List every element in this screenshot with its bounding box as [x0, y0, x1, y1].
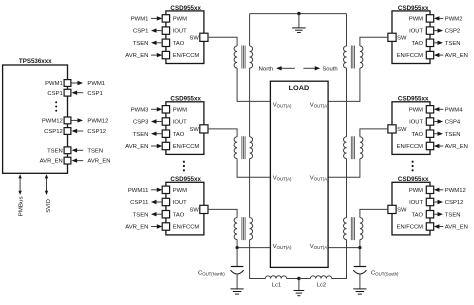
pin SW of south CSD row3 [388, 205, 407, 213]
svg-text:PWM: PWM [409, 107, 423, 113]
svg-text:CSP12: CSP12 [445, 200, 464, 206]
coupled inductor T5 south (secondary winding) [344, 137, 347, 159]
svg-text:EN/FCCM: EN/FCCM [173, 144, 200, 150]
svg-text:North: North [259, 67, 274, 73]
ground of COUT(North) [231, 288, 244, 290]
power stage U4 CSD955xx (north phase 11) [166, 177, 204, 235]
pin PWM12 of U1 [42, 117, 109, 125]
svg-text:AVR_EN: AVR_EN [445, 144, 468, 150]
svg-text:PWM: PWM [173, 107, 187, 113]
power stage U5 CSD955xx (south phase 2) [392, 6, 430, 64]
pin EN/FCCM of north CSD row2 [125, 142, 199, 150]
coupled inductor T6 south (secondary winding) [344, 218, 347, 240]
capacitor COUT(South) [353, 248, 399, 289]
junction north output node [236, 246, 239, 249]
coupled inductor T4 south (primary winding) [360, 46, 363, 68]
pin IOUT of south CSD row1 [409, 27, 460, 35]
wire T5 primary to LOAD right pin [328, 159, 360, 178]
coupled inductor T5 south (primary winding) [360, 137, 363, 159]
svg-text:CSP1: CSP1 [47, 91, 62, 97]
svg-text:IOUT: IOUT [409, 120, 423, 126]
svg-text:COUT(North): COUT(North) [198, 270, 225, 276]
junction on top rail [297, 12, 300, 15]
wire T4 primary to LOAD right pin [328, 68, 360, 101]
coupled inductor T1 north (secondary winding) [250, 46, 253, 68]
svg-text:PWM1: PWM1 [87, 81, 105, 87]
wire north secondary rail top (to ground rail) [249, 14, 251, 46]
wire T2 primary to LOAD left pin [237, 159, 270, 178]
svg-text:SW: SW [397, 127, 407, 133]
pin AVR_EN of U1 [40, 157, 111, 165]
svg-text:PWM3: PWM3 [131, 107, 149, 113]
svg-text:PWM: PWM [409, 188, 423, 194]
coupled inductor T3 north (primary winding) [234, 218, 237, 240]
pin TAO of south CSD row2 [412, 130, 461, 138]
coupled inductor T4 south (core) [351, 46, 354, 69]
svg-text:EN/FCCM: EN/FCCM [397, 225, 424, 231]
coupled inductor T6 south (core) [351, 217, 354, 240]
svg-text:TSEN: TSEN [133, 132, 149, 138]
wire T6 primary to LOAD right pin [328, 240, 360, 248]
wire SW north row3 to T3 primary [208, 209, 237, 217]
svg-text:Lc2: Lc2 [317, 282, 326, 288]
svg-text:AVR_EN: AVR_EN [40, 159, 63, 165]
svg-text:TAO: TAO [412, 132, 424, 138]
svg-text:CSP12: CSP12 [87, 129, 106, 135]
svg-text:TSEN: TSEN [445, 212, 461, 218]
svg-text:PWM4: PWM4 [445, 107, 463, 113]
pin IOUT of north CSD row2 [133, 118, 187, 126]
inductor Lc2 [310, 276, 331, 289]
pin IOUT of south CSD row3 [409, 198, 463, 206]
power stage U6 CSD955xx (south phase 4) [392, 97, 430, 155]
svg-text:COUT(South): COUT(South) [371, 270, 399, 276]
svg-text:SW: SW [397, 35, 407, 41]
wire south secondary rail top (to ground rail) [346, 14, 348, 46]
wire SW south row3 to T6 primary [360, 209, 388, 217]
pin EN/FCCM of south CSD row1 [397, 51, 468, 59]
pin TSEN of U1 [47, 147, 103, 155]
wire north secondary rail T1-T2 [249, 68, 251, 137]
coupled inductor T2 north (secondary winding) [250, 137, 253, 159]
pin TAO of north CSD row3 [133, 211, 185, 219]
SVID port arrow of U1 [45, 174, 52, 213]
wire SW north row1 to T1 primary [208, 37, 237, 46]
svg-text:CSP4: CSP4 [445, 120, 461, 126]
svg-text:SW: SW [189, 208, 199, 214]
svg-text:TAO: TAO [412, 212, 424, 218]
svg-text:IOUT: IOUT [173, 200, 187, 206]
svg-text:VOUT(A): VOUT(A) [310, 244, 329, 250]
wire SW south row1 to T4 primary [360, 37, 388, 46]
svg-text:CSP11: CSP11 [130, 200, 148, 206]
svg-text:PWM2: PWM2 [445, 17, 463, 23]
svg-text:TSEN: TSEN [47, 148, 63, 154]
svg-text:VOUT(A): VOUT(A) [273, 175, 292, 181]
svg-text:AVR_EN: AVR_EN [125, 225, 148, 231]
svg-text:SVID: SVID [46, 199, 52, 213]
pin PWM of south CSD row1 [409, 15, 463, 23]
svg-text:SW: SW [189, 35, 199, 41]
pin EN/FCCM of south CSD row3 [397, 223, 468, 231]
pin TAO of south CSD row3 [412, 211, 461, 219]
wire top secondary return rail [250, 13, 347, 15]
ground at top rail [292, 14, 306, 33]
svg-text:CSD955xx: CSD955xx [398, 6, 429, 12]
pin EN/FCCM of north CSD row3 [125, 223, 199, 231]
svg-text:EN/FCCM: EN/FCCM [173, 53, 200, 59]
svg-text:SW: SW [189, 127, 199, 133]
pin PWM of south CSD row2 [409, 106, 463, 114]
pin PWM1 of U1 [45, 80, 105, 88]
svg-text:CSD955xx: CSD955xx [398, 177, 429, 183]
svg-text:PWM: PWM [173, 17, 187, 23]
coupled inductor T4 south (secondary winding) [344, 46, 347, 68]
wire Lc1 left lead [250, 278, 266, 280]
coupled inductor T2 north (primary winding) [234, 137, 237, 159]
svg-text:CSP1: CSP1 [133, 29, 148, 35]
svg-text:AVR_EN: AVR_EN [87, 159, 110, 165]
junction at bottom center [297, 277, 300, 280]
power stage U3 CSD955xx (north phase 3) [166, 97, 204, 155]
svg-text:IOUT: IOUT [173, 29, 187, 35]
pin IOUT of south CSD row2 [409, 118, 461, 126]
svg-text:CSP2: CSP2 [445, 29, 460, 35]
svg-text:SW: SW [397, 208, 407, 214]
pin PWM of north CSD row3 [128, 186, 187, 194]
coupled inductor T6 south (primary winding) [360, 218, 363, 240]
svg-text:TAO: TAO [173, 132, 185, 138]
svg-text:PWM12: PWM12 [42, 119, 63, 125]
pin TAO of north CSD row2 [133, 130, 185, 138]
svg-text:EN/FCCM: EN/FCCM [397, 144, 424, 150]
svg-text:TSEN: TSEN [133, 41, 149, 47]
wire T3 primary to LOAD left pin [237, 240, 270, 248]
pin SW of north CSD row2 [189, 125, 208, 133]
svg-text:PWM11: PWM11 [128, 188, 149, 194]
pin SW of south CSD row2 [388, 125, 407, 133]
ellipsis between south CSD row2 and row3 [412, 161, 414, 172]
svg-text:PMBus: PMBus [18, 196, 24, 216]
pin PWM of north CSD row1 [131, 15, 187, 23]
power stage U2 CSD955xx (north phase 1) [166, 6, 204, 64]
svg-text:CSD955xx: CSD955xx [170, 6, 201, 12]
svg-text:CSD955xx: CSD955xx [398, 97, 429, 103]
svg-text:VOUT(A): VOUT(A) [310, 103, 329, 109]
load block [270, 81, 328, 267]
svg-text:TSEN: TSEN [445, 41, 461, 47]
svg-text:AVR_EN: AVR_EN [445, 225, 468, 231]
pin EN/FCCM of north CSD row1 [125, 51, 199, 59]
pin PWM of north CSD row2 [131, 106, 187, 114]
svg-text:CSD955xx: CSD955xx [170, 97, 201, 103]
pin SW of north CSD row3 [189, 205, 208, 213]
wire SW north row2 to T2 primary [208, 129, 237, 137]
svg-text:LOAD: LOAD [289, 85, 310, 92]
svg-text:PWM: PWM [409, 17, 423, 23]
pin PWM of south CSD row3 [409, 186, 466, 194]
pin IOUT of north CSD row3 [130, 198, 187, 206]
svg-text:TPS536xxx: TPS536xxx [19, 59, 52, 65]
wire south secondary rail T1-T2 [346, 68, 348, 137]
wire north secondary rail T2-T3 [249, 159, 251, 218]
coupled inductor T1 north (primary winding) [234, 46, 237, 68]
svg-text:TSEN: TSEN [445, 132, 461, 138]
coupled inductor T1 north (core) [242, 46, 245, 69]
wire SW south row2 to T5 primary [360, 129, 388, 137]
ground of COUT(South) [353, 288, 366, 290]
svg-text:AVR_EN: AVR_EN [445, 53, 468, 59]
wire center junction to Lc2 [299, 278, 311, 280]
coupled inductor T3 north (core) [242, 217, 245, 240]
pin IOUT of north CSD row1 [133, 27, 187, 35]
pin SW of north CSD row1 [189, 33, 208, 41]
svg-text:TSEN: TSEN [133, 212, 149, 218]
capacitor COUT(North) [198, 248, 244, 289]
PMBus port arrow of U1 [18, 174, 24, 216]
inductor Lc1 [265, 276, 286, 289]
ellipsis between CSP1 and PWM12 of U1 [55, 101, 57, 111]
pin CSP1 of U1 [47, 89, 102, 97]
wire Lc1 to center junction [287, 278, 299, 280]
svg-text:CSD955xx: CSD955xx [170, 177, 201, 183]
wire north secondary rail bottom to Lc1 [250, 240, 266, 279]
svg-text:EN/FCCM: EN/FCCM [397, 53, 424, 59]
svg-text:TAO: TAO [173, 41, 185, 47]
svg-text:PWM: PWM [173, 188, 187, 194]
svg-text:South: South [322, 67, 337, 73]
coupled inductor T5 south (core) [351, 136, 354, 159]
svg-text:CSP12: CSP12 [44, 129, 63, 135]
wire south secondary rail bottom to Lc2 [332, 240, 347, 279]
wire T1 primary to LOAD left pin [237, 68, 270, 101]
svg-text:IOUT: IOUT [409, 29, 423, 35]
svg-text:IOUT: IOUT [409, 200, 423, 206]
svg-text:TAO: TAO [412, 41, 424, 47]
svg-text:PWM1: PWM1 [45, 81, 63, 87]
svg-text:EN/FCCM: EN/FCCM [173, 225, 200, 231]
direction label South with arrow [303, 66, 337, 72]
svg-text:AVR_EN: AVR_EN [125, 144, 148, 150]
controller U1 TPS536xxx [3, 59, 68, 174]
svg-text:AVR_EN: AVR_EN [125, 53, 148, 59]
svg-text:PWM1: PWM1 [131, 17, 149, 23]
svg-text:PWM12: PWM12 [87, 119, 108, 125]
ellipsis between north CSD row2 and row3 [183, 161, 185, 172]
coupled inductor T3 north (secondary winding) [250, 218, 253, 240]
pin TAO of north CSD row1 [133, 39, 185, 47]
power stage U7 CSD955xx (south phase 12) [392, 177, 430, 235]
ground at bottom center [294, 279, 305, 296]
wire south secondary rail T2-T3 [346, 159, 348, 218]
svg-text:VOUT(A): VOUT(A) [273, 244, 292, 250]
svg-text:TAO: TAO [173, 212, 185, 218]
svg-text:VOUT(A): VOUT(A) [310, 175, 329, 181]
svg-text:TSEN: TSEN [87, 148, 103, 154]
svg-text:CSP1: CSP1 [87, 91, 102, 97]
svg-text:IOUT: IOUT [173, 120, 187, 126]
junction south output node [358, 246, 361, 249]
svg-text:CSP3: CSP3 [133, 120, 149, 126]
svg-text:Lc1: Lc1 [272, 283, 281, 289]
svg-text:PWM12: PWM12 [445, 188, 466, 194]
pin CSP12 of U1 [44, 128, 106, 136]
coupled inductor T2 north (core) [242, 136, 245, 159]
pin SW of south CSD row1 [388, 33, 407, 41]
direction label North with arrow [259, 66, 295, 72]
svg-text:VOUT(A): VOUT(A) [273, 103, 292, 109]
pin EN/FCCM of south CSD row2 [397, 142, 468, 150]
pin TAO of south CSD row1 [412, 39, 461, 47]
